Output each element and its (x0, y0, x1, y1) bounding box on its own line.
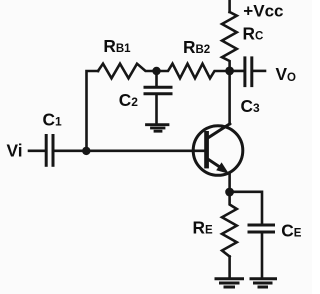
wire C1 to base node A (55, 150, 87, 153)
label Vo (276, 64, 297, 84)
capacitor C1 (46, 136, 53, 166)
svg-text:CE: CE (281, 221, 301, 241)
wire collector: node C down to transistor (228, 71, 231, 124)
wire C3 to Vo (253, 70, 265, 73)
capacitor C3 (245, 58, 252, 86)
label Vi (7, 141, 23, 161)
wire node B to C2 (155, 71, 158, 86)
label RC (243, 23, 264, 43)
svg-text:C3: C3 (241, 96, 260, 116)
capacitor CE (249, 225, 274, 232)
resistor RB2 (157, 64, 230, 79)
label +Vcc (243, 1, 283, 20)
wire CE to ground (261, 234, 264, 278)
svg-text:Vi: Vi (7, 141, 23, 161)
wire C2 to ground (155, 95, 158, 123)
svg-text:RE: RE (193, 218, 213, 238)
svg-text:RB1: RB1 (103, 36, 131, 56)
label C2 (119, 90, 138, 110)
wire base: node A to transistor (87, 150, 206, 153)
wire node C to C3 (230, 70, 244, 73)
label RB1 (103, 36, 131, 56)
wire node A up to RB1 (87, 71, 99, 151)
resistor RB1 (98, 64, 157, 79)
wire emitter down to node E (228, 174, 231, 193)
svg-text:+Vcc: +Vcc (243, 1, 283, 20)
junction node B (152, 67, 160, 75)
wire RE to ground (228, 257, 231, 278)
svg-text:C2: C2 (119, 90, 138, 110)
svg-text:C1: C1 (43, 110, 62, 130)
ground (CE) (251, 279, 276, 287)
junction node E (225, 188, 234, 197)
svg-text:RC: RC (243, 23, 264, 43)
ground (C2) (147, 125, 169, 132)
transistor Q1 (193, 124, 243, 175)
svg-text:VO: VO (276, 64, 297, 84)
junction node C (collector) (225, 67, 234, 76)
label CE (281, 221, 301, 241)
wire node E to CE (230, 192, 262, 224)
svg-text:RB2: RB2 (183, 37, 210, 57)
label C3 (241, 96, 260, 116)
label RE (193, 218, 213, 238)
resistor RE (222, 192, 237, 257)
label C1 (43, 110, 62, 130)
capacitor C2 (145, 87, 171, 94)
label RB2 (183, 37, 210, 57)
junction node A (82, 147, 90, 155)
ground (RE) (216, 279, 243, 287)
wire Vi to C1 (29, 150, 44, 153)
wire +Vcc supply to RC (228, 0, 231, 12)
resistor RC (222, 12, 237, 71)
